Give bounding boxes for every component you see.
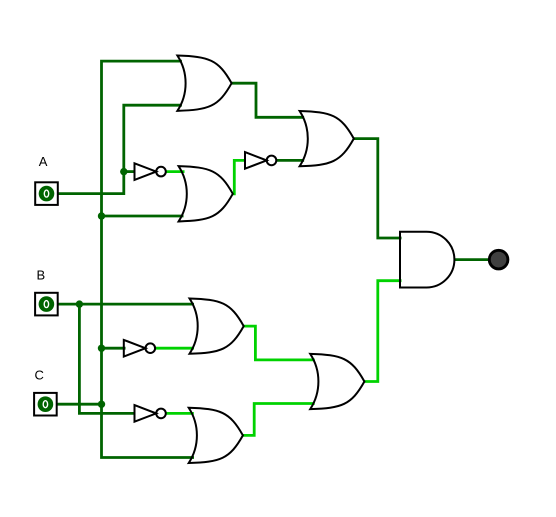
svg-text:B: B [37, 267, 46, 282]
svg-text:A: A [39, 154, 48, 169]
svg-text:C: C [35, 368, 44, 383]
